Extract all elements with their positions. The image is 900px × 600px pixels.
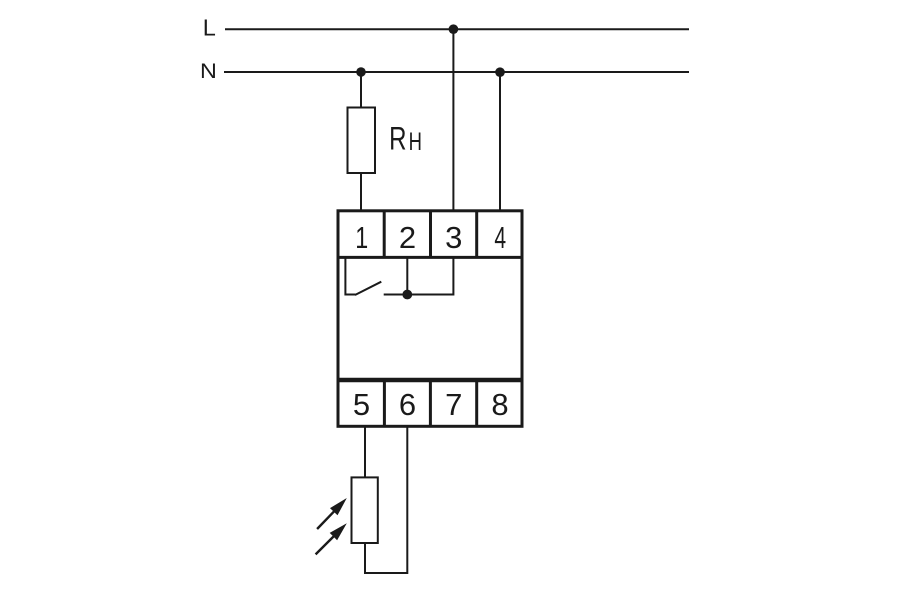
svg-text:H: H: [409, 127, 422, 155]
svg-text:R: R: [389, 121, 406, 157]
svg-text:2: 2: [399, 220, 416, 255]
svg-text:6: 6: [399, 387, 416, 422]
svg-text:L: L: [203, 15, 216, 41]
svg-text:1: 1: [355, 220, 368, 255]
svg-text:8: 8: [491, 387, 508, 422]
svg-text:3: 3: [445, 220, 462, 255]
svg-text:4: 4: [494, 220, 506, 255]
svg-text:N: N: [200, 59, 217, 83]
svg-text:7: 7: [445, 387, 462, 422]
svg-text:5: 5: [353, 387, 370, 422]
